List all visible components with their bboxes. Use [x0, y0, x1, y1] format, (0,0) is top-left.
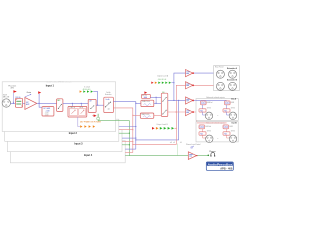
- svg-text:600R: 600R: [229, 126, 232, 128]
- wire TB1 stub: [202, 129, 204, 132]
- LED D19 green: [168, 127, 171, 130]
- LED D15 red: [152, 127, 155, 130]
- transformer TB1: [199, 125, 212, 129]
- switch SW1 on air / extender: [104, 91, 114, 113]
- attenuator PA2: [223, 108, 235, 113]
- wire out A line over box: [196, 99, 227, 101]
- wire EXT to B5: [150, 96, 161, 98]
- wire U4 out A line: [194, 99, 227, 101]
- wire meter A tap: [93, 92, 97, 106]
- wire sheet3 blue: [122, 137, 136, 139]
- svg-text:≡: ≡: [217, 138, 218, 140]
- wire meter B tie: [171, 82, 174, 84]
- wire F2 riser: [39, 94, 42, 107]
- wire phantom feed: [12, 93, 14, 103]
- sheet Input 3: [7, 130, 122, 152]
- connector XLR extender B1: [216, 82, 224, 90]
- op-amp U6 headphone amp: [188, 152, 197, 160]
- potentiometer gain arrow: [25, 95, 31, 97]
- wire sheet4 green: [125, 155, 129, 157]
- svg-text:600R bal: 600R bal: [205, 126, 211, 128]
- svg-text:XLR M: XLR M: [207, 108, 211, 110]
- wire B4 to SW1: [96, 104, 104, 106]
- LED D2 green: [83, 90, 85, 92]
- wire TR2 to B5: [154, 114, 162, 116]
- wire TB2 stub: [226, 129, 228, 132]
- wire U2 to extender A: [194, 72, 217, 74]
- svg-text:Input 2: Input 2: [69, 132, 78, 135]
- node junction stub a: [72, 103, 73, 104]
- box rear panel: [214, 66, 240, 91]
- wire sheet2 red: [119, 129, 133, 131]
- op-amp U1 mic preamp: [25, 97, 37, 109]
- sheet Input 2: [5, 119, 119, 141]
- transformer TA2: [225, 101, 235, 105]
- LED D20 green: [172, 127, 175, 130]
- wire U6 to phones: [198, 154, 209, 156]
- LED D10 orange: [155, 82, 157, 84]
- svg-text:+40dB: +40dB: [45, 113, 49, 115]
- box out A: [196, 96, 238, 120]
- wire SW1 red out to bus: [113, 108, 132, 153]
- LED D13 green: [165, 82, 167, 84]
- svg-text:XLR M: XLR M: [231, 131, 235, 133]
- svg-text:MIC IN: MIC IN: [3, 97, 10, 99]
- svg-text:-10 -6 -3 0 +3: -10 -6 -3 0 +3: [158, 79, 167, 81]
- svg-text:Out A: Out A: [231, 97, 237, 100]
- svg-text:+20dB: +20dB: [45, 111, 49, 113]
- sheet Input 4: [10, 141, 125, 163]
- op-amp U4 out A driver: [186, 97, 194, 104]
- wire green bus: [98, 120, 188, 156]
- LED D6 orange: [84, 125, 86, 128]
- wire PA2 to XLR: [227, 112, 230, 115]
- svg-text:+60dB: +60dB: [45, 114, 49, 116]
- wire sheet4 blue: [125, 148, 136, 150]
- svg-text:Output Level A: Output Level A: [157, 74, 169, 77]
- LED D1 orange: [80, 90, 82, 92]
- LED D12 green: [162, 82, 164, 84]
- LED D17 green: [160, 127, 163, 130]
- LED D9 red: [151, 82, 153, 84]
- wire SW2 to B4: [63, 102, 88, 104]
- LED D16 orange: [156, 127, 159, 130]
- node junction phantom/main: [13, 103, 14, 104]
- svg-text:Extender B: Extender B: [227, 79, 238, 82]
- svg-text:Output Level B: Output Level B: [156, 123, 168, 126]
- wire red bus outlet: [133, 85, 186, 144]
- connector XLR extender B2: [229, 82, 237, 90]
- filter FL1 RFI: [15, 96, 22, 108]
- node phones jack dot: [208, 155, 210, 157]
- connector XLR out B1: [206, 135, 213, 142]
- svg-text:In Level: In Level: [84, 86, 91, 88]
- transformer TA1: [201, 101, 214, 105]
- svg-text:AudioPressBox: AudioPressBox: [208, 162, 233, 166]
- power flag F2: [38, 91, 41, 94]
- LED D18 green: [164, 127, 167, 130]
- block B3 limiter: [68, 106, 87, 117]
- wire stub a: [71, 103, 73, 106]
- attenuator PA1: [199, 108, 211, 113]
- svg-text:Input 3: Input 3: [74, 143, 83, 146]
- node junction main/F2: [39, 103, 40, 104]
- op-amp U5 out B driver: [186, 109, 194, 116]
- wire meter C tie: [174, 127, 176, 129]
- LED D8 orange: [93, 125, 95, 128]
- wire blue bus outlet: [136, 100, 179, 139]
- logo AudioPressBox: [206, 162, 233, 171]
- connector XLR extender A2: [229, 70, 237, 78]
- wire green stub phones: [176, 144, 178, 156]
- wire B5 red out: [168, 111, 186, 113]
- svg-text:≡: ≡: [217, 115, 218, 117]
- attenuator PB2: [223, 131, 235, 136]
- transformer TR1: [141, 100, 154, 107]
- switch SW2 pad: [57, 99, 63, 112]
- wire sheet3 green: [122, 144, 129, 146]
- wire riser to U2: [174, 73, 186, 100]
- connector XLR out A1: [205, 112, 212, 119]
- svg-text:XLR M: XLR M: [207, 131, 211, 133]
- svg-text:+B: +B: [180, 142, 182, 144]
- wire SW1 blue out to bus: [113, 102, 135, 149]
- block B1 gain control: [42, 107, 54, 117]
- block B4 line amp: [88, 99, 96, 112]
- wire sheet4 red: [125, 152, 133, 154]
- svg-text:Rear Panel: Rear Panel: [215, 66, 224, 69]
- wire J1 to RFI filter: [11, 102, 16, 104]
- switch B5 output select: [161, 92, 168, 117]
- power flag F4: [144, 91, 147, 94]
- op-amp U3 extender B driver: [186, 82, 194, 89]
- LED D4 green: [91, 90, 93, 92]
- LED D7 orange: [89, 125, 91, 128]
- svg-text:Input 4: Input 4: [84, 154, 93, 157]
- box out B: [196, 121, 238, 142]
- wire blue bus to TR1: [136, 102, 141, 104]
- wire RFI to U1: [23, 102, 25, 104]
- wire sheet2 green: [119, 132, 130, 134]
- wire U5 out B line: [194, 112, 227, 123]
- wire out B line over box: [197, 122, 227, 124]
- wire purple limiter to LEDs: [78, 117, 80, 127]
- transformer TR2: [140, 113, 154, 119]
- wire B5 blue out: [168, 99, 186, 101]
- svg-text:600R: 600R: [231, 102, 234, 104]
- wire TA1 stub: [202, 105, 204, 109]
- wire sheet3 red: [122, 141, 133, 143]
- wire U1 to SW2: [37, 102, 57, 104]
- svg-text:Extender A: Extender A: [227, 67, 238, 70]
- wire link vertical: [155, 97, 157, 103]
- svg-text:600R bal: 600R bal: [207, 102, 213, 104]
- op-amp U2 extender A driver: [186, 70, 194, 77]
- wire sheet2 blue: [119, 126, 136, 128]
- wire PB2 to XLR: [227, 135, 230, 138]
- sheet Input 1: [2, 82, 115, 132]
- attenuator PB1: [199, 131, 211, 136]
- svg-text:Out B: Out B: [231, 122, 237, 125]
- block EXT extender in: [142, 94, 151, 98]
- wire TA2 stub: [226, 105, 228, 109]
- wire PA1 to XLR: [203, 112, 206, 115]
- wire TR1 to B5: [154, 102, 162, 104]
- LED D5 orange: [80, 125, 82, 128]
- connector XLR out B2: [229, 135, 236, 142]
- svg-text:XLR M: XLR M: [231, 108, 235, 110]
- svg-text:APB - 400: APB - 400: [220, 167, 233, 171]
- LED D3 green: [87, 90, 89, 92]
- power flag phantom: [13, 90, 16, 93]
- node junction stub b: [81, 103, 82, 104]
- LED D11 green: [158, 82, 160, 84]
- wire PB1 to XLR: [203, 135, 206, 138]
- node junction riser T4: [176, 111, 177, 112]
- LED D14 green: [169, 82, 171, 84]
- svg-text:Input 1: Input 1: [46, 84, 55, 87]
- connector J1 XLR MIC IN: [2, 94, 10, 107]
- connector phones jack: [211, 152, 215, 156]
- connector GB1 green: [97, 114, 100, 120]
- wire red bus to TR2: [133, 114, 141, 116]
- wire U3 to extender B: [194, 84, 217, 86]
- power flag F3: [94, 114, 97, 117]
- potentiometer phones volume: [191, 146, 195, 149]
- node junction meter A: [97, 105, 98, 106]
- transformer TB2: [223, 125, 233, 129]
- connector XLR extender A1: [216, 70, 224, 78]
- wire stub b: [80, 103, 82, 106]
- connector XLR out A2: [229, 112, 236, 119]
